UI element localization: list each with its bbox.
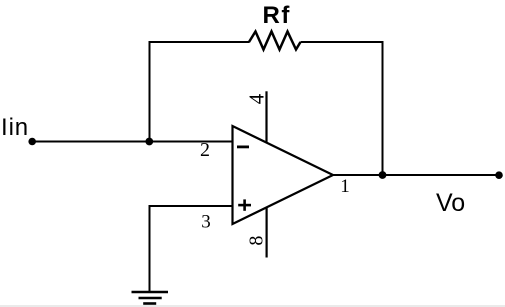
wire pin3 horizontal: [149, 205, 233, 207]
svg-text:3: 3: [201, 212, 211, 233]
svg-text:8: 8: [246, 236, 268, 246]
ground: [132, 292, 169, 304]
pin 4 power line: [265, 91, 267, 143]
resistor Rf: [249, 32, 301, 50]
output terminal dot: [495, 171, 503, 179]
svg-text:1: 1: [340, 176, 350, 197]
bottom edge faint line: [0, 305, 505, 307]
svg-text:Vo: Vo: [436, 189, 465, 217]
node junction input/feedback: [145, 138, 153, 146]
wire ground vertical: [149, 206, 151, 292]
wire feedback right vertical: [382, 41, 384, 175]
op-amp inverting input marker: [237, 145, 249, 148]
wire top left segment: [149, 41, 250, 43]
wire input horizontal: [32, 141, 233, 143]
input terminal dot: [28, 138, 36, 146]
svg-text:Iin: Iin: [1, 114, 29, 141]
wire output horizontal: [333, 174, 500, 176]
node junction output/feedback: [379, 171, 387, 179]
svg-text:4: 4: [245, 93, 269, 104]
svg-text:2: 2: [200, 139, 210, 161]
op-amp non-inverting input marker: [238, 199, 251, 210]
wire top right segment: [301, 41, 384, 43]
op-amp U1: [233, 126, 334, 224]
svg-text:Rf: Rf: [263, 2, 291, 29]
pin 8 power line: [266, 207, 268, 257]
wire feedback left vertical: [149, 41, 151, 142]
